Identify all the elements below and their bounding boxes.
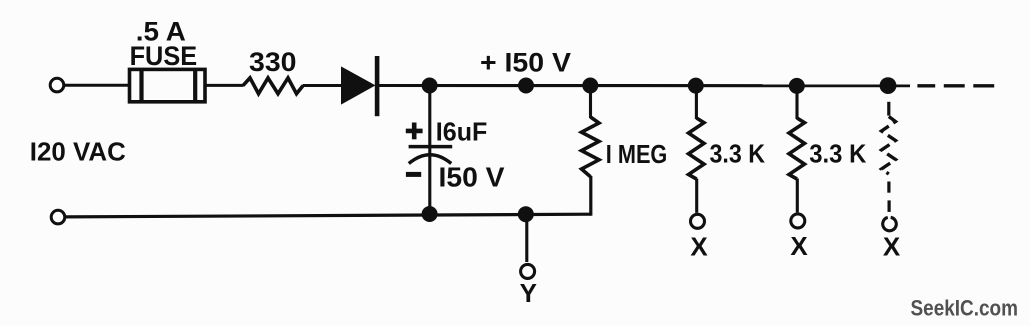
node: junction bottom rail at Y lead xyxy=(518,206,534,222)
wire: +150V top rail xyxy=(379,84,910,87)
svg-text:X: X xyxy=(690,232,708,262)
wire: dashed continuation of top rail, dash 1 xyxy=(917,84,935,87)
svg-text:I6uF: I6uF xyxy=(436,116,488,146)
fuse F1 right cap line xyxy=(193,69,197,101)
svg-text:+ I50 V: + I50 V xyxy=(480,47,571,77)
node: junction top rail at dashed stage xyxy=(880,77,897,94)
wire: bottom rail xyxy=(65,214,591,217)
node: junction top rail at capacitor xyxy=(422,78,438,94)
wire: first 3.3K branch, zigzag to terminal xyxy=(695,179,698,213)
svg-text:FUSE: FUSE xyxy=(130,41,198,71)
wire: second 3.3K branch, zigzag to terminal xyxy=(796,179,799,213)
wire: dash above X terminal (upper) xyxy=(887,182,890,193)
fuse F1 left cap line xyxy=(139,69,143,101)
svg-text:I50 V: I50 V xyxy=(439,161,505,192)
wire: top input lead xyxy=(64,84,129,87)
node: junction top rail mid xyxy=(518,78,534,94)
wire: dashed continuation of top rail, dash 2 xyxy=(944,84,965,87)
capacitor C1 plus sign horizontal xyxy=(406,129,423,134)
svg-text:X: X xyxy=(883,232,901,262)
fuse F1 body xyxy=(130,69,206,101)
terminal X (first, open circle) xyxy=(691,214,705,228)
wire: second 3.3K branch, rail to zigzag xyxy=(795,86,798,119)
svg-text:X: X xyxy=(790,231,808,261)
wire: 1 MEG branch, rail to zigzag xyxy=(589,86,592,119)
node: junction top rail at first 3.3K xyxy=(688,78,704,94)
terminal X (second, open circle) xyxy=(791,214,805,228)
resistor 3.3 K (first) xyxy=(689,118,705,179)
wire: fuse to resistor 330 xyxy=(205,84,243,87)
wire: resistor 330 to diode xyxy=(303,84,342,87)
svg-text:SeekIC.com: SeekIC.com xyxy=(911,296,1019,321)
svg-text:I20 VAC: I20 VAC xyxy=(30,136,126,166)
resistor 3.3 K (second) xyxy=(789,118,805,179)
capacitor C1 minus sign xyxy=(406,172,421,177)
capacitor C1 bottom plate (curved) xyxy=(409,155,451,164)
wire: dashed continuation of top rail, dash 3 xyxy=(973,84,994,87)
node: junction top rail at 1 MEG xyxy=(582,78,598,94)
svg-text:3.3 K: 3.3 K xyxy=(809,141,867,169)
node: junction top rail at second 3.3K xyxy=(789,78,805,94)
diode CR1 cathode bar xyxy=(375,56,380,116)
terminal: AC line input (bottom) xyxy=(51,210,65,224)
svg-text:I MEG: I MEG xyxy=(606,139,668,169)
terminal Y (open circle) xyxy=(521,264,535,278)
wire: dash above X terminal (lower) xyxy=(887,200,890,212)
capacitor C1 plus sign vertical xyxy=(412,123,417,140)
svg-text:Y: Y xyxy=(520,278,537,308)
svg-text:3.3 K: 3.3 K xyxy=(710,140,766,168)
wire: dashed stage stub below node xyxy=(887,102,890,116)
node: junction bottom rail at capacitor xyxy=(422,206,438,222)
diode CR1 anode triangle xyxy=(341,66,376,104)
wire: 1 MEG branch, zigzag to bottom rail xyxy=(589,176,592,216)
wire: capacitor branch vertical xyxy=(428,86,431,215)
terminal X (third, dashed open circle) xyxy=(882,216,898,232)
wire: first 3.3K branch, rail to zigzag xyxy=(695,86,698,119)
resistor 1 MEG xyxy=(582,117,600,177)
wire: Y terminal lead xyxy=(525,214,528,262)
resistor 330 xyxy=(243,78,303,94)
capacitor C1 top plate xyxy=(409,145,453,149)
resistor (dashed, repeated stage) broken zigzag xyxy=(882,117,896,175)
svg-text:330: 330 xyxy=(249,47,297,77)
terminal: AC line input (top) xyxy=(50,78,64,92)
